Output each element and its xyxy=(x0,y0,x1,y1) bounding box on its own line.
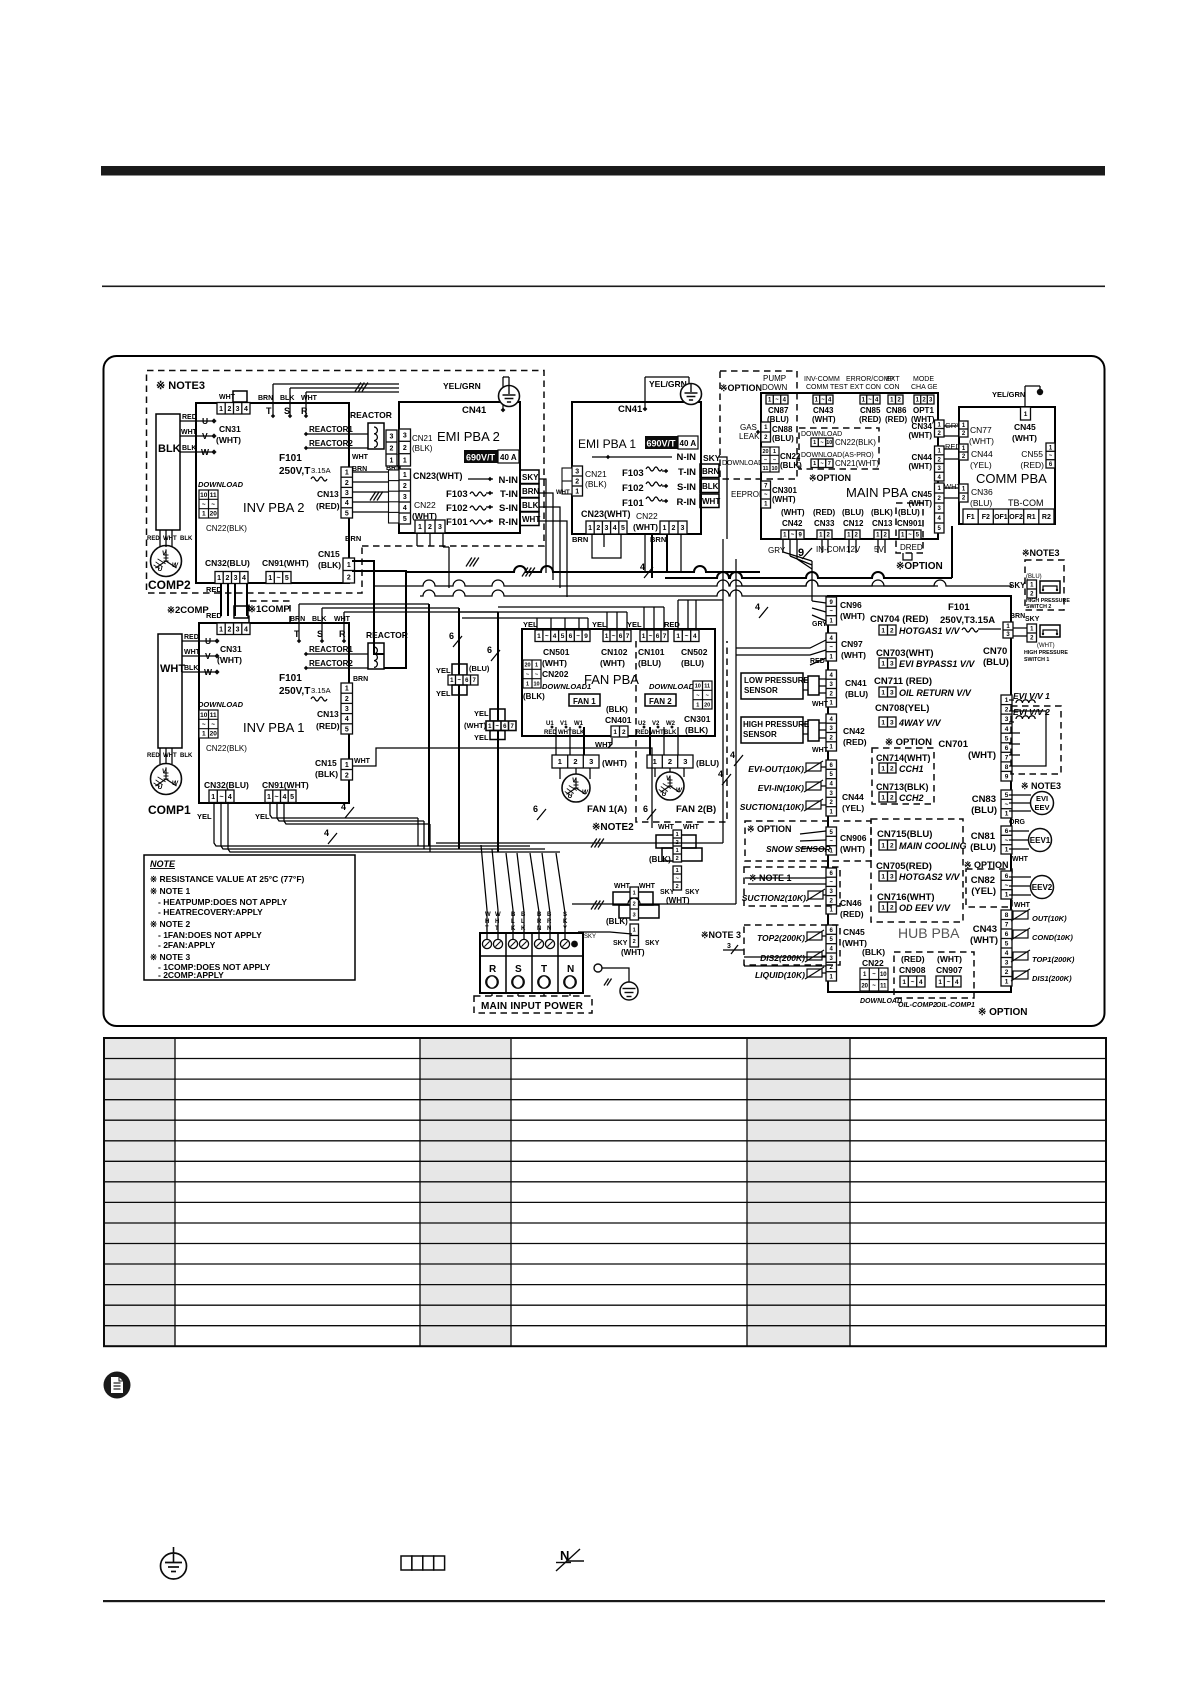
svg-text:LEAK: LEAK xyxy=(739,432,760,441)
svg-text:CN34: CN34 xyxy=(912,422,933,431)
svg-text:3: 3 xyxy=(236,406,240,413)
svg-text:1: 1 xyxy=(403,457,407,464)
thermistor DIS1 xyxy=(1011,969,1030,981)
svg-text:~: ~ xyxy=(211,721,215,728)
svg-text:1: 1 xyxy=(1005,811,1009,818)
main pba small drops xyxy=(821,539,823,553)
svg-text:2: 2 xyxy=(672,525,676,532)
svg-text:1: 1 xyxy=(773,449,776,455)
svg-text:SENSOR: SENSOR xyxy=(744,686,778,695)
svg-text:CN23(WHT): CN23(WHT) xyxy=(413,471,463,481)
svg-text:3: 3 xyxy=(681,525,685,532)
svg-text:(RED): (RED) xyxy=(901,954,925,964)
svg-text:- HEATPUMP:DOES NOT APPLY: - HEATPUMP:DOES NOT APPLY xyxy=(158,897,287,907)
svg-text:WHT: WHT xyxy=(614,883,631,890)
svg-text:CN43: CN43 xyxy=(973,924,997,935)
svg-text:20: 20 xyxy=(704,702,710,708)
svg-text:3: 3 xyxy=(234,575,238,582)
svg-text:250V,T: 250V,T xyxy=(279,466,310,477)
svg-text:※NOTE 3: ※NOTE 3 xyxy=(701,930,741,940)
svg-text:BRN: BRN xyxy=(702,467,720,476)
svg-text:※ NOTE 3: ※ NOTE 3 xyxy=(150,952,190,962)
svg-text:(WHT): (WHT) xyxy=(812,415,836,424)
svg-text:CN33: CN33 xyxy=(814,519,835,528)
svg-text:(RED): (RED) xyxy=(843,737,867,747)
svg-text:CN41: CN41 xyxy=(462,405,487,416)
svg-text:1: 1 xyxy=(676,868,679,874)
svg-text:F101: F101 xyxy=(446,517,468,528)
svg-text:3: 3 xyxy=(345,490,349,497)
svg-text:T: T xyxy=(266,406,272,416)
svg-text:1: 1 xyxy=(676,848,679,854)
svg-text:※1COMP: ※1COMP xyxy=(248,604,290,615)
svg-text:OF1: OF1 xyxy=(994,514,1008,521)
svg-text:2: 2 xyxy=(890,794,894,801)
inverter board INV PBA 1 xyxy=(199,623,349,803)
svg-text:6: 6 xyxy=(569,633,573,640)
connector CN41 (hub) xyxy=(826,670,837,707)
svg-text:CN42: CN42 xyxy=(843,726,865,736)
svg-text:1: 1 xyxy=(881,873,885,880)
svg-text:YEL/GRN: YEL/GRN xyxy=(649,379,687,389)
svg-text:8: 8 xyxy=(1005,764,1009,771)
terminal screws upper row xyxy=(482,939,491,948)
note3 dashed boundary xyxy=(147,371,545,594)
svg-text:DOWNLOAD: DOWNLOAD xyxy=(801,431,842,438)
svg-text:11: 11 xyxy=(210,492,217,499)
connector CN70 fuse output xyxy=(1003,622,1013,638)
relay box FAN 2 xyxy=(645,694,676,706)
svg-text:~: ~ xyxy=(764,493,768,499)
svg-text:CN901: CN901 xyxy=(897,519,922,528)
svg-text:(BLU): (BLU) xyxy=(971,805,997,816)
svg-text:YEL: YEL xyxy=(523,620,538,629)
svg-text:5: 5 xyxy=(1005,941,1009,948)
svg-text:OIL-COMP2: OIL-COMP2 xyxy=(898,1002,937,1009)
svg-text:~: ~ xyxy=(908,533,912,539)
svg-text:DOWNLOAD: DOWNLOAD xyxy=(860,998,902,1005)
svg-text:12V: 12V xyxy=(846,545,861,554)
svg-text:~: ~ xyxy=(676,876,679,882)
svg-text:(WHT): (WHT) xyxy=(464,721,487,730)
wire COMP1 V xyxy=(182,655,217,657)
svg-text:(WHT): (WHT) xyxy=(969,436,994,446)
svg-text:CN705(RED): CN705(RED) xyxy=(876,861,932,872)
svg-text:BRN: BRN xyxy=(345,534,361,543)
svg-text:3: 3 xyxy=(890,873,894,880)
svg-text:CN91(WHT): CN91(WHT) xyxy=(262,558,309,568)
svg-text:(YEL): (YEL) xyxy=(971,886,996,897)
svg-text:2: 2 xyxy=(227,406,231,413)
svg-text:(BLU): (BLU) xyxy=(898,508,920,517)
svg-text:4: 4 xyxy=(718,769,723,779)
svg-text:(WHT): (WHT) xyxy=(1012,433,1037,443)
field wiring legend xyxy=(556,1548,584,1571)
svg-text:INV-COMM: INV-COMM xyxy=(804,376,840,383)
wires EMI2 tags to down bus xyxy=(539,479,546,573)
svg-text:HUB PBA: HUB PBA xyxy=(898,925,960,941)
expansion valve EEV2 xyxy=(1031,876,1054,899)
relay box FAN 1 xyxy=(569,694,600,706)
svg-text:F101: F101 xyxy=(279,673,302,684)
svg-text:CN88: CN88 xyxy=(772,425,793,434)
svg-text:- 2COMP:APPLY: - 2COMP:APPLY xyxy=(158,970,224,980)
svg-text:COMP2: COMP2 xyxy=(148,578,191,592)
svg-text:1: 1 xyxy=(902,979,906,986)
svg-text:6: 6 xyxy=(656,633,660,640)
svg-text:CN45: CN45 xyxy=(843,927,865,937)
terminal block main input xyxy=(480,933,583,993)
svg-text:10: 10 xyxy=(695,684,701,690)
svg-text:CN101: CN101 xyxy=(638,647,665,657)
svg-text:(WHT): (WHT) xyxy=(908,431,932,440)
svg-text:(BLK): (BLK) xyxy=(315,769,338,779)
svg-text:REACTOR: REACTOR xyxy=(350,410,392,420)
svg-text:11: 11 xyxy=(763,466,769,472)
svg-text:(YEL): (YEL) xyxy=(970,460,992,470)
svg-text:CN32(BLU): CN32(BLU) xyxy=(205,558,250,568)
svg-text:~: ~ xyxy=(868,398,872,404)
svg-text:CN22: CN22 xyxy=(862,958,884,968)
svg-text:WHT: WHT xyxy=(163,753,177,759)
svg-text:CN15: CN15 xyxy=(315,758,337,768)
svg-text:3: 3 xyxy=(683,757,687,766)
svg-text:4: 4 xyxy=(693,633,697,640)
fan2 terminal strip xyxy=(647,755,693,768)
svg-text:6: 6 xyxy=(449,631,454,641)
svg-text:CN22(BLK): CN22(BLK) xyxy=(206,524,247,533)
svg-text:CN713(BLK): CN713(BLK) xyxy=(876,782,929,792)
svg-text:DRED: DRED xyxy=(900,543,923,552)
svg-text:(RED): (RED) xyxy=(859,415,882,424)
svg-text:※NOTE2: ※NOTE2 xyxy=(592,822,634,833)
svg-text:FAN 1(A): FAN 1(A) xyxy=(587,804,627,815)
svg-text:(WHT): (WHT) xyxy=(772,495,796,504)
svg-text:GRY: GRY xyxy=(812,621,827,628)
svg-text:~: ~ xyxy=(821,398,825,404)
svg-text:1: 1 xyxy=(1024,411,1028,418)
svg-text:4: 4 xyxy=(955,979,959,986)
svg-text:F101: F101 xyxy=(948,602,970,613)
svg-text:CN44: CN44 xyxy=(842,792,864,802)
svg-text:SWITCH 2: SWITCH 2 xyxy=(1026,604,1051,610)
svg-text:9: 9 xyxy=(584,633,588,640)
fuse rating label 690V/T 40A (EMI1) xyxy=(645,436,698,449)
wire CN15 INV1 to inline connector xyxy=(353,748,652,828)
svg-text:1: 1 xyxy=(881,689,885,696)
svg-text:6: 6 xyxy=(1005,828,1009,835)
svg-text:10: 10 xyxy=(200,712,208,719)
svg-text:3: 3 xyxy=(1005,716,1009,723)
svg-text:WHT: WHT xyxy=(639,883,656,890)
svg-text:OIL RETURN V/V: OIL RETURN V/V xyxy=(899,688,972,698)
svg-text:RED: RED xyxy=(206,585,222,594)
terminal strip legend xyxy=(401,1556,445,1570)
svg-text:R1: R1 xyxy=(1027,514,1036,521)
svg-text:~: ~ xyxy=(612,633,616,640)
bus bold y572 xyxy=(406,566,760,572)
svg-text:CN46: CN46 xyxy=(840,898,862,908)
svg-text:~: ~ xyxy=(872,983,876,989)
svg-text:R: R xyxy=(339,629,346,639)
svg-text:CN91(WHT): CN91(WHT) xyxy=(262,780,309,790)
svg-text:WHT: WHT xyxy=(354,758,371,765)
svg-text:(WHT): (WHT) xyxy=(908,462,932,471)
svg-text:1: 1 xyxy=(345,470,349,477)
note2 dashed boundary xyxy=(636,641,727,822)
svg-text:3: 3 xyxy=(403,494,407,501)
svg-text:CN43: CN43 xyxy=(813,406,834,415)
svg-text:RED: RED xyxy=(544,730,557,736)
svg-text:40 A: 40 A xyxy=(500,453,517,462)
svg-text:F2: F2 xyxy=(982,514,990,521)
svg-text:DOWNLOAD(AS-PRO): DOWNLOAD(AS-PRO) xyxy=(801,452,874,459)
page header bar xyxy=(101,166,1105,176)
svg-text:(RED): (RED) xyxy=(1020,460,1044,470)
svg-text:CN301: CN301 xyxy=(772,486,797,495)
svg-text:NOTE: NOTE xyxy=(150,859,176,869)
svg-text:3.15A: 3.15A xyxy=(311,686,331,695)
svg-text:6: 6 xyxy=(1005,931,1009,938)
svg-text:CN77: CN77 xyxy=(970,425,992,435)
svg-text:4: 4 xyxy=(640,562,645,572)
svg-text:※ RESISTANCE VALUE AT 25°C (77: ※ RESISTANCE VALUE AT 25°C (77°F) xyxy=(150,874,305,884)
communication board COMM PBA xyxy=(959,407,1055,524)
svg-text:H: H xyxy=(495,919,499,925)
svg-text:※ OPTION: ※ OPTION xyxy=(885,737,932,748)
svg-text:COMM TEST: COMM TEST xyxy=(806,384,849,391)
svg-text:YEL: YEL xyxy=(627,620,642,629)
svg-text:4: 4 xyxy=(553,633,557,640)
svg-text:CN87: CN87 xyxy=(768,406,789,415)
svg-text:2: 2 xyxy=(890,842,894,849)
svg-text:1: 1 xyxy=(938,979,942,986)
svg-text:1: 1 xyxy=(881,627,885,634)
svg-text:LIQUID(10K): LIQUID(10K) xyxy=(755,970,805,980)
vertical trunk x723 xyxy=(722,539,724,843)
connector CN21 (EMI2) xyxy=(399,429,411,466)
svg-text:3: 3 xyxy=(589,757,593,766)
svg-text:~: ~ xyxy=(649,633,653,640)
svg-text:EVI: EVI xyxy=(1036,794,1048,803)
svg-text:2: 2 xyxy=(622,729,626,736)
svg-text:WHT: WHT xyxy=(1014,902,1031,909)
svg-text:REACTOR1: REACTOR1 xyxy=(309,645,353,654)
svg-text:~: ~ xyxy=(495,724,499,730)
svg-text:4WAY V/V: 4WAY V/V xyxy=(898,718,942,728)
svg-text:6: 6 xyxy=(533,804,538,814)
download option dashed box (main) xyxy=(799,428,879,469)
svg-text:CN96: CN96 xyxy=(840,600,862,610)
svg-text:~: ~ xyxy=(820,461,823,467)
svg-text:5: 5 xyxy=(345,510,349,517)
svg-text:20: 20 xyxy=(861,983,868,989)
svg-text:RED: RED xyxy=(147,536,160,542)
svg-text:2: 2 xyxy=(676,856,679,862)
svg-text:CN401: CN401 xyxy=(605,715,632,725)
svg-text:~: ~ xyxy=(275,794,279,801)
svg-text:CN13: CN13 xyxy=(317,489,339,499)
svg-text:CN44: CN44 xyxy=(971,449,993,459)
svg-text:11: 11 xyxy=(210,712,217,719)
svg-text:1: 1 xyxy=(1005,697,1009,704)
svg-text:- 1FAN:DOES NOT APPLY: - 1FAN:DOES NOT APPLY xyxy=(158,930,262,940)
svg-text:BLK: BLK xyxy=(280,395,294,402)
svg-text:3: 3 xyxy=(605,525,609,532)
svg-text:BRN: BRN xyxy=(353,676,368,683)
svg-text:YEL/GRN: YEL/GRN xyxy=(992,390,1025,399)
svg-text:YEL/GRN: YEL/GRN xyxy=(443,381,481,391)
svg-text:20: 20 xyxy=(762,449,768,455)
terminal screws lower row xyxy=(486,976,498,988)
connector CN31 (INV PBA 2) xyxy=(217,403,250,415)
svg-text:CN85: CN85 xyxy=(860,406,881,415)
expansion valve EVI EEV xyxy=(1031,792,1054,815)
svg-text:(BLK): (BLK) xyxy=(685,725,708,735)
connector CN45 (hub) xyxy=(826,925,837,981)
note icon xyxy=(104,1372,131,1399)
connector CN23 (EMI2) xyxy=(389,470,400,523)
svg-text:~: ~ xyxy=(947,979,951,986)
svg-text:RED: RED xyxy=(206,611,222,620)
svg-text:CN301: CN301 xyxy=(684,714,711,724)
connector CN21 (EMI1) xyxy=(572,466,583,496)
connector CN42 (hub) xyxy=(826,714,837,751)
svg-text:OPT1: OPT1 xyxy=(913,406,934,415)
svg-text:6: 6 xyxy=(1005,745,1009,752)
svg-text:20: 20 xyxy=(524,663,530,669)
svg-text:(BLK): (BLK) xyxy=(585,479,607,489)
svg-text:2: 2 xyxy=(668,757,672,766)
svg-text:(BLU): (BLU) xyxy=(970,842,996,853)
svg-text:(WHT): (WHT) xyxy=(542,658,567,668)
svg-text:4: 4 xyxy=(282,794,286,801)
svg-text:YEL: YEL xyxy=(255,812,270,821)
svg-text:CN202: CN202 xyxy=(542,669,569,679)
svg-text:2: 2 xyxy=(428,524,432,531)
svg-text:DIS2(200K): DIS2(200K) xyxy=(760,953,805,963)
svg-text:(RED): (RED) xyxy=(316,501,340,511)
connector CN202 download1 xyxy=(523,660,541,688)
svg-text:2: 2 xyxy=(227,626,231,633)
svg-text:9: 9 xyxy=(1005,774,1009,781)
svg-text:1: 1 xyxy=(881,842,885,849)
svg-text:HIGH PRESSURE: HIGH PRESSURE xyxy=(743,720,810,729)
svg-text:1: 1 xyxy=(211,794,215,801)
svg-text:1: 1 xyxy=(267,794,271,801)
svg-text:~: ~ xyxy=(775,398,779,404)
connector CN44 (hub) xyxy=(826,760,837,816)
wire bundle mark xyxy=(355,383,368,392)
svg-text:~: ~ xyxy=(1005,837,1009,844)
svg-text:(WHT): (WHT) xyxy=(970,935,998,946)
svg-text:(BLU): (BLU) xyxy=(638,658,661,668)
wires EMI1 CN22 drop xyxy=(666,534,668,572)
svg-text:1: 1 xyxy=(558,757,562,766)
svg-text:(BLU): (BLU) xyxy=(681,658,704,668)
fuse rating label 690V/T 40A (EMI2) xyxy=(464,450,519,463)
svg-text:3: 3 xyxy=(727,943,731,950)
svg-text:SKY: SKY xyxy=(522,473,539,482)
svg-text:2: 2 xyxy=(573,757,577,766)
svg-text:OUT(10K): OUT(10K) xyxy=(1032,914,1067,923)
svg-text:CN32(BLU): CN32(BLU) xyxy=(204,780,249,790)
svg-text:(BLU): (BLU) xyxy=(469,664,490,673)
svg-text:U: U xyxy=(158,566,163,573)
svg-text:1: 1 xyxy=(676,832,679,838)
svg-text:CN708(YEL): CN708(YEL) xyxy=(875,703,929,714)
svg-text:1: 1 xyxy=(663,525,667,532)
svg-text:BLK: BLK xyxy=(158,443,181,455)
svg-text:(BLU): (BLU) xyxy=(970,498,992,508)
svg-text:11: 11 xyxy=(704,684,710,690)
thermistor COND xyxy=(1011,928,1030,940)
svg-text:CN83: CN83 xyxy=(972,794,996,805)
svg-text:6: 6 xyxy=(1005,873,1009,880)
svg-text:YEL: YEL xyxy=(474,709,489,718)
svg-text:3: 3 xyxy=(1005,960,1009,967)
svg-text:6: 6 xyxy=(643,804,648,814)
svg-text:BRN: BRN xyxy=(290,616,305,623)
svg-text:250V,T: 250V,T xyxy=(279,686,310,697)
svg-text:EXT: EXT xyxy=(886,376,900,383)
svg-text:N: N xyxy=(567,964,574,975)
svg-text:CN22(BLK): CN22(BLK) xyxy=(835,438,876,447)
svg-text:~: ~ xyxy=(457,678,461,684)
svg-text:WHT: WHT xyxy=(658,824,675,831)
svg-text:1: 1 xyxy=(345,762,349,769)
svg-text:DOWN: DOWN xyxy=(762,383,788,392)
svg-text:CN81: CN81 xyxy=(971,831,996,842)
svg-text:(BLU): (BLU) xyxy=(1026,574,1042,580)
svg-text:3: 3 xyxy=(890,660,894,667)
svg-text:(BLK): (BLK) xyxy=(606,917,628,926)
svg-text:RED: RED xyxy=(184,634,199,641)
svg-text:CN36: CN36 xyxy=(971,487,993,497)
svg-text:SKY: SKY xyxy=(1025,616,1040,623)
svg-text:~: ~ xyxy=(829,645,833,651)
svg-text:BLK: BLK xyxy=(664,730,677,736)
svg-text:3: 3 xyxy=(345,706,349,713)
svg-text:F101: F101 xyxy=(622,498,644,509)
svg-text:SKY: SKY xyxy=(703,453,721,463)
svg-text:CN502: CN502 xyxy=(681,647,708,657)
svg-text:1: 1 xyxy=(813,461,816,467)
svg-text:(RED): (RED) xyxy=(813,508,836,517)
svg-text:ORG: ORG xyxy=(1009,819,1026,826)
svg-text:YEL: YEL xyxy=(436,666,451,675)
svg-text:1: 1 xyxy=(537,633,541,640)
svg-text:4: 4 xyxy=(1005,726,1009,733)
svg-text:~: ~ xyxy=(829,609,833,615)
svg-text:~: ~ xyxy=(1049,454,1053,460)
svg-text:CN13: CN13 xyxy=(872,519,893,528)
connector CN22 service (INV1) xyxy=(199,710,218,738)
svg-text:WHT: WHT xyxy=(1012,856,1029,863)
vertical bus left of FAN PBA xyxy=(428,604,430,846)
svg-text:TOP1(200K): TOP1(200K) xyxy=(1032,955,1075,964)
svg-text:FAN 2(B): FAN 2(B) xyxy=(676,804,716,815)
svg-text:N-IN: N-IN xyxy=(676,452,696,463)
svg-text:CN501: CN501 xyxy=(543,647,570,657)
svg-text:(WHT): (WHT) xyxy=(781,508,805,517)
terminal feed diagonals xyxy=(481,845,498,939)
chassis ground (main input) xyxy=(604,979,612,986)
svg-text:WHT: WHT xyxy=(160,663,185,675)
wire COMP2 CN32 to INV1 CN31 bundle xyxy=(220,583,222,616)
connector CN901 dred option xyxy=(896,503,923,553)
svg-text:2: 2 xyxy=(596,525,600,532)
